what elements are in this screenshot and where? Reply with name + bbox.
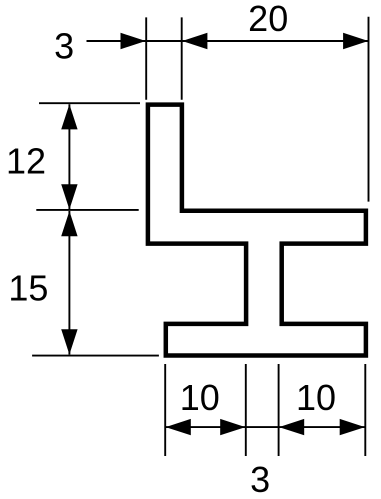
extension line bottom x=365.3 <box>364 364 366 456</box>
svg-text:15: 15 <box>8 268 48 309</box>
extension line top middle (x=181.7) <box>181 17 183 99</box>
svg-text:3: 3 <box>250 459 270 499</box>
arrow left at x=181.7 <box>182 33 207 49</box>
profile outline <box>148 105 366 356</box>
extension line top right (x=368.5) <box>368 17 370 202</box>
extension line top left (x=146) <box>145 17 147 99</box>
extension line bottom x=278.6 <box>278 364 280 456</box>
arrow down at y=209.5 <box>61 184 77 209</box>
svg-text:10: 10 <box>296 377 336 418</box>
dimension line bottom (y=427) <box>165 426 365 428</box>
dimension line vertical 12 <box>68 104 70 209</box>
svg-text:10: 10 <box>180 377 220 418</box>
arrow left at x=278.6 <box>279 419 304 435</box>
arrow left at x=165.2 <box>166 419 191 435</box>
arrow up at y=104 <box>61 104 77 129</box>
extension line bottom x=245.8 <box>245 364 247 456</box>
arrow up at y=211 <box>61 211 77 236</box>
extension line bottom x=165.2 <box>164 364 166 456</box>
arrow down at y=354.5 <box>61 329 77 354</box>
extension line left y=210 <box>36 209 138 211</box>
dimension line top (y=41) <box>87 40 369 42</box>
extension line left y=355.6 <box>32 355 159 357</box>
arrow right at x=365.3 <box>340 419 365 435</box>
svg-text:12: 12 <box>6 141 46 182</box>
extension line left y=103 <box>39 102 140 104</box>
arrow right at x=146 <box>121 33 146 49</box>
svg-text:20: 20 <box>248 0 288 39</box>
arrow right at x=368.5 <box>343 33 368 49</box>
arrow right at x=245.8 <box>220 419 245 435</box>
svg-text:3: 3 <box>54 26 74 67</box>
dimension line vertical 15 <box>68 211 70 355</box>
